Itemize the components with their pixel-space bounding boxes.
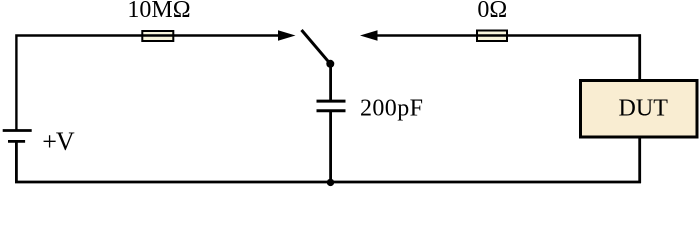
- svg-text:200pF: 200pF: [360, 95, 423, 121]
- svg-text:10MΩ: 10MΩ: [127, 0, 190, 23]
- svg-text:0Ω: 0Ω: [477, 0, 507, 23]
- resistor R1 body: [142, 31, 174, 41]
- DUT box U1: [581, 81, 698, 138]
- wire DUT bottom to bottom rail: [638, 138, 641, 183]
- svg-text:DUT: DUT: [619, 96, 669, 122]
- wire top-right rail: [377, 34, 641, 36]
- battery V1 positive plate: [3, 129, 32, 132]
- resistor R2 body: [477, 31, 507, 42]
- arrowhead from DUT side: [360, 30, 378, 41]
- wire switch pole to capacitor: [329, 64, 332, 101]
- switch blade S1: [302, 30, 331, 64]
- capacitor C1 200pF: [317, 101, 346, 111]
- junction dot capacitor to rail: [327, 179, 334, 186]
- wire bottom rail and battery lower lead: [16, 143, 641, 183]
- svg-text:+V: +V: [42, 127, 75, 156]
- arrowhead into switch: [278, 30, 296, 41]
- wire top-left rail and left vertical: [16, 36, 280, 130]
- battery V1 negative plate: [8, 140, 25, 143]
- switch pole junction dot: [326, 60, 334, 68]
- wire capacitor to bottom rail: [329, 112, 332, 184]
- wire down to DUT top: [638, 34, 641, 81]
